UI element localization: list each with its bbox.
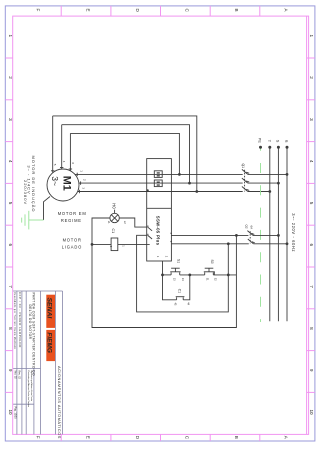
svg-text:LIGADO: LIGADO: [62, 244, 82, 249]
wire control rail segment 3: [213, 274, 236, 276]
svg-text:5: 5: [8, 202, 13, 205]
junction tap pin3 line: [227, 242, 230, 245]
svg-text:H0: H0: [111, 203, 116, 209]
label supply R S T PE: [258, 138, 289, 144]
svg-text:6: 6: [8, 244, 13, 247]
node S supply origin: [277, 146, 280, 149]
wire node K1 to coil a2: [92, 243, 111, 245]
junction L3-T: [268, 190, 271, 193]
svg-text:F: F: [36, 9, 41, 12]
svg-text:Q2: Q2: [245, 225, 249, 229]
svg-text:S1: S1: [176, 259, 180, 263]
motor M1: [47, 169, 79, 201]
breaker Q2 pole 1 contact tick: [251, 233, 254, 234]
ground symbol: [22, 211, 29, 230]
svg-text:10: 10: [309, 410, 314, 416]
svg-text:REGIME: REGIME: [61, 218, 82, 223]
svg-text:F: F: [36, 436, 41, 439]
junction tap pin4 line: [235, 234, 238, 237]
svg-text:C1: C1: [111, 229, 115, 234]
node PE supply origin: [259, 146, 262, 149]
pushbutton S1: [170, 272, 172, 275]
breaker Q2 pole 2 wire to bus R: [253, 243, 287, 245]
wire control rail segment 1: [163, 274, 172, 276]
svg-text:ACIONAMENTOS AUTOMÁTICOS: ACIONAMENTOS AUTOMÁTICOS: [57, 366, 62, 439]
wire top link pin4 to drop: [62, 125, 190, 183]
thyristor block phase L1: [154, 171, 162, 178]
top margin column ticks: [61, 6, 260, 16]
svg-text:9: 9: [8, 369, 13, 372]
wire phase L2 from motor pin2 to Q1: [79, 182, 243, 184]
wire coil a1 to starter pin 3: [118, 243, 150, 245]
bottom margin column ticks: [61, 434, 260, 441]
svg-text:1: 1: [309, 35, 314, 38]
svg-text:DELTA DO MOTOR: DELTA DO MOTOR: [28, 305, 32, 340]
soft starter internal divider: [147, 207, 172, 209]
starter internal contact b: [148, 234, 152, 239]
svg-text:6: 6: [309, 244, 314, 247]
starter internal contact a: [148, 226, 152, 231]
svg-text:3~: 3~: [50, 176, 60, 186]
wire starter pin 2 to lower run: [137, 235, 229, 312]
junction rail to pin3 tap vertical: [227, 274, 230, 277]
breaker Q1 pole 1 blade: [242, 169, 248, 174]
svg-text:SENAI: SENAI: [46, 298, 53, 319]
junction L2-S: [277, 182, 280, 185]
svg-text:E: E: [85, 9, 90, 12]
lamp H0 leader tick: [114, 210, 116, 214]
svg-text:Rev. 02: Rev. 02: [17, 371, 20, 380]
svg-text:4: 4: [8, 160, 13, 163]
bus R vertical: [286, 147, 288, 321]
svg-text:220/380V: 220/380V: [23, 180, 28, 205]
motor pin labels 5 4 6: [53, 161, 86, 190]
svg-text:Nro. 02: Nro. 02: [13, 371, 16, 380]
svg-text:Revisado por Marcos Paulo dos: Revisado por Marcos Paulo dos Santos: [27, 371, 30, 408]
left margin row numbers 1-10: [8, 35, 13, 416]
svg-text:7: 7: [8, 285, 13, 288]
svg-text:9: 9: [309, 369, 314, 372]
breaker Q1 pole 3 contact tick: [246, 189, 249, 190]
junction control rail left: [161, 274, 164, 277]
pin tick motor pin 5: [51, 170, 54, 172]
label MOTOR DE INDUCAO: [23, 156, 36, 213]
wire top link pin5 to drop: [53, 116, 197, 192]
svg-text:S: S: [276, 140, 280, 143]
svg-text:B: B: [234, 436, 239, 439]
right margin row ticks: [307, 58, 315, 392]
svg-text:2: 2: [8, 76, 13, 79]
pushbutton S0: [204, 272, 206, 275]
title block frame: [13, 290, 62, 292]
starter relay pin 3 output wire: [171, 243, 248, 245]
breaker Q1 pole 1 contact tick: [246, 172, 249, 173]
svg-text:Aprovado por Mauro Lúcio Cost: Aprovado por Mauro Lúcio Costa: [30, 371, 33, 402]
svg-text:M1: M1: [61, 176, 73, 191]
wire riser from motor pin 6: [69, 133, 71, 170]
svg-text:10: 10: [8, 410, 13, 416]
starter relay pin 4 output wire: [171, 234, 248, 236]
breaker Q2 pole 1 wire to bus S: [253, 234, 278, 236]
junction pin3 line to bus R: [286, 242, 289, 245]
svg-text:MOTOR EM: MOTOR EM: [58, 211, 87, 216]
soft starter U1 body: [147, 159, 172, 261]
contact C1 holding branch: [163, 275, 177, 300]
wire L1 from Q1 to bus R: [248, 173, 287, 175]
svg-text:FIEMG: FIEMG: [46, 332, 53, 353]
breaker Q2 pole 2 blade: [248, 239, 254, 244]
junction rail S1 parallel: [188, 274, 191, 277]
junction delta drop pin6-L1: [178, 173, 181, 176]
junction delta drop pin5-L3: [195, 190, 198, 193]
svg-text:Q1: Q1: [241, 164, 245, 169]
wire phase L3 from motor pin3 to Q1: [78, 191, 243, 193]
svg-text:8: 8: [8, 327, 13, 330]
wire starter bottom pin to control rail: [162, 261, 164, 275]
wire L2 from Q1 to bus S: [248, 182, 279, 184]
motor ground wire: [44, 197, 51, 221]
wire riser from motor pin 4: [61, 125, 63, 169]
svg-text:MOTOR: MOTOR: [63, 238, 82, 243]
pin tick motor pin 4: [60, 167, 63, 169]
svg-text:CFP / 03 - PEDRO LEOPOLDO: CFP / 03 - PEDRO LEOPOLDO: [18, 292, 22, 348]
svg-text:3~- 220V - 60Hz: 3~- 220V - 60Hz: [291, 213, 296, 252]
bus S vertical: [277, 147, 279, 321]
junction L1-R: [286, 173, 289, 176]
svg-text:E: E: [85, 436, 90, 439]
wire lamp right to starter pin 1: [119, 218, 146, 227]
thyristor block phase L2: [154, 180, 162, 187]
logo SENAI block: [46, 295, 55, 328]
svg-text:5: 5: [309, 202, 314, 205]
junction node K1: [91, 243, 94, 246]
right margin row numbers 1-10: [309, 35, 314, 416]
svg-text:Pág. 12/25: Pág. 12/25: [13, 407, 16, 420]
wire control rail segment 2: [180, 274, 205, 276]
breaker Q1 pole 2 contact tick: [246, 181, 249, 182]
svg-text:4: 4: [309, 160, 314, 163]
svg-text:R: R: [284, 140, 288, 143]
pin tick motor pin 6: [69, 168, 72, 170]
top margin column letters F E D C B A: [36, 9, 289, 13]
pin tick motor pin1: [76, 173, 78, 176]
breaker Q1 pole 2 blade: [242, 178, 248, 183]
svg-text:SSW-05 Plus: SSW-05 Plus: [156, 216, 161, 246]
wire riser from motor pin 5: [52, 116, 54, 173]
svg-text:8: 8: [309, 327, 314, 330]
ground PE wire green: [29, 219, 44, 221]
junction delta drop pin4-L2: [188, 182, 191, 185]
breaker Q2 linkage dashed: [249, 231, 251, 243]
junction pin4 line to bus S: [277, 234, 280, 237]
breaker Q1 pole 3 blade: [242, 187, 248, 192]
svg-text:1: 1: [8, 35, 13, 38]
junction starter L3 input: [146, 189, 148, 191]
svg-text:B: B: [234, 9, 239, 12]
svg-text:3: 3: [309, 118, 314, 121]
node T supply origin: [268, 146, 271, 149]
bus PE vertical green dashed: [260, 147, 262, 322]
svg-text:PE: PE: [258, 138, 262, 144]
wire coil return loop: [92, 235, 236, 327]
wire phase L1 from motor pin1 to Q1: [75, 173, 243, 175]
svg-text:3: 3: [8, 118, 13, 121]
bus T vertical: [269, 147, 271, 321]
title block divider rows: [13, 368, 40, 370]
logo FIEMG block: [46, 330, 55, 361]
wire L3 from Q1 to bus T: [248, 191, 270, 193]
node R supply origin: [286, 146, 289, 149]
wire top link pin6 to drop: [70, 133, 179, 174]
bottom margin column letters F E D C B A: [36, 436, 289, 440]
svg-text:6A: 6A: [249, 226, 253, 230]
lamp H0: [110, 213, 119, 222]
svg-text:C1: C1: [177, 289, 181, 293]
contactor C1 coil: [111, 238, 118, 251]
svg-text:S0: S0: [210, 260, 214, 264]
breaker Q2 pole 2 contact tick: [252, 242, 255, 243]
svg-text:7: 7: [309, 285, 314, 288]
right inner frame edge: [306, 16, 308, 434]
wire lamp left to node K1: [92, 218, 110, 244]
breaker Q1 linkage dashed: [244, 170, 246, 192]
svg-text:2: 2: [309, 76, 314, 79]
left margin row ticks: [5, 58, 12, 392]
breaker Q2 pole 1 blade: [247, 231, 253, 236]
pin tick motor pin2: [80, 181, 82, 184]
pin tick motor pin3: [78, 190, 80, 193]
